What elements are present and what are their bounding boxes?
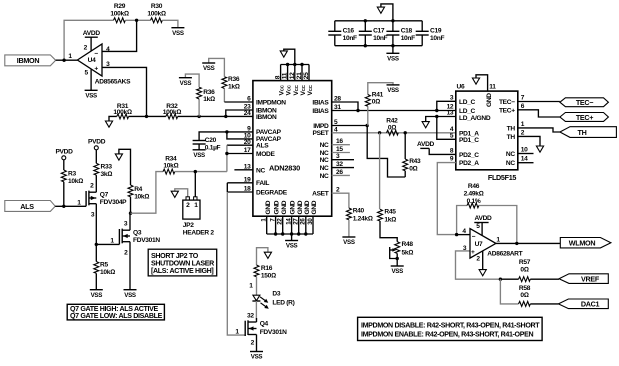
ground arrow above caps (377, 4, 393, 21)
svg-text:0.1µF: 0.1µF (205, 145, 221, 152)
capacitor C19 (416, 21, 445, 46)
svg-text:GND: GND (290, 200, 297, 214)
node R36-1 junction (197, 115, 200, 118)
wire pin23 elbow (226, 110, 253, 116)
svg-text:10nF: 10nF (343, 35, 357, 42)
capacitor C16 (328, 21, 357, 46)
svg-text:C20: C20 (205, 137, 217, 144)
power PVDD at R33 (88, 139, 106, 164)
transistor Q3 FDV301N (110, 213, 160, 290)
wire ALS/MODE vertical to R34 (226, 145, 228, 171)
connector flag TEC+ (560, 113, 609, 122)
svg-text:NC: NC (320, 165, 329, 172)
resistor R29 (110, 3, 128, 23)
node R46 left junction (455, 233, 458, 236)
svg-text:R16: R16 (261, 265, 273, 272)
svg-text:C16: C16 (343, 27, 355, 34)
wire pin11 to ground arrow (476, 75, 488, 91)
node pin3 junction (145, 115, 148, 118)
node pin23 junction (224, 115, 227, 118)
svg-text:1kΩ: 1kΩ (384, 217, 396, 224)
svg-text:0Ω: 0Ω (409, 165, 417, 172)
svg-text:AVDD: AVDD (475, 215, 493, 222)
svg-text:1kΩ: 1kΩ (228, 83, 240, 90)
svg-text:C18: C18 (401, 27, 413, 34)
svg-text:FDV301N: FDV301N (260, 329, 287, 336)
svg-text:Q7: Q7 (100, 192, 109, 199)
svg-text:VREF: VREF (581, 274, 600, 283)
svg-text:R29: R29 (114, 3, 126, 10)
power PVDD at R3 (55, 149, 73, 170)
svg-text:R42: R42 (386, 118, 398, 125)
note box SHORT JP2 (148, 249, 217, 276)
svg-text:NC: NC (256, 167, 265, 174)
svg-text:VCC: VCC (293, 84, 300, 95)
ground arrow at pin13 (422, 122, 429, 128)
wire R32 to IC pin24 (178, 115, 253, 117)
svg-text:100kΩ: 100kΩ (147, 11, 165, 18)
wire R30 to VSS (162, 20, 178, 27)
resistor R46 feedback (457, 183, 517, 243)
ground VSS below Q3 (124, 290, 137, 299)
ground arrow above IC (280, 51, 287, 57)
ground VSS right of R30 (171, 28, 184, 37)
wire VCC bar to arrow (284, 49, 295, 64)
wire JP2 pin2 to ground arrow (175, 189, 188, 197)
svg-text:C19: C19 (430, 27, 442, 34)
wire pin13 to PD1_C pin5 (437, 117, 456, 140)
svg-text:HEADER 2: HEADER 2 (183, 230, 215, 237)
wire junction down to pin4 (102, 20, 137, 51)
node Q7 drain junction (95, 243, 98, 246)
svg-text:12: 12 (289, 72, 296, 79)
svg-text:WLMON: WLMON (569, 238, 596, 247)
wire PSET line gray (332, 132, 456, 134)
svg-text:ALS: ALS (256, 143, 269, 150)
svg-text:R5: R5 (100, 262, 108, 269)
IC top VCC pins (281, 65, 309, 81)
wire IMPD staircase to R43 (367, 126, 405, 178)
IC right pin labels (312, 99, 329, 197)
svg-text:22: 22 (277, 218, 284, 225)
svg-text:30: 30 (307, 218, 314, 225)
ground arrow left of R31 (105, 116, 116, 127)
ground arrow left of JP2 (171, 191, 178, 197)
node R42 right junction (404, 131, 407, 134)
IC U6 body (456, 83, 518, 182)
svg-text:FLD5F15: FLD5F15 (488, 173, 517, 182)
svg-text:R57: R57 (519, 259, 531, 266)
resistor R32 (163, 103, 181, 119)
svg-text:0Ω: 0Ω (372, 99, 380, 106)
svg-text:PAVCAP: PAVCAP (256, 129, 282, 136)
node IBMON junction (62, 59, 65, 62)
wire net to Q4 gate gray (227, 192, 245, 335)
node R46 right junction (515, 242, 518, 245)
svg-text:AVDD: AVDD (417, 141, 435, 148)
node pin28/31 junction (356, 109, 359, 112)
svg-text:0Ω: 0Ω (520, 292, 528, 299)
power AVDD at U6 pin8 (417, 141, 456, 154)
ground VSS below Q4 (250, 352, 263, 361)
ground arrow at pin2 (536, 146, 543, 152)
svg-text:R46: R46 (468, 183, 480, 190)
potentiometer R48 (390, 241, 414, 266)
diode D3 LED (249, 283, 294, 320)
wire DEGRADE pin18 (227, 191, 253, 193)
connector flag TEC- (560, 98, 609, 107)
svg-text:R33: R33 (101, 164, 113, 171)
wire IBIAS line (332, 110, 437, 112)
resistor R3 (61, 170, 83, 206)
svg-text:R4: R4 (134, 186, 142, 193)
svg-text:NC: NC (506, 151, 515, 158)
svg-text:ADN2830: ADN2830 (269, 164, 300, 173)
capacitor C17 (359, 21, 388, 46)
ground VSS below IC (285, 241, 298, 250)
ground arrow above R16 (257, 248, 272, 265)
wire R34 to ALS/MODE vertical (175, 171, 227, 173)
svg-text:ALS: ALS (20, 202, 34, 211)
svg-text:100kΩ: 100kΩ (110, 11, 128, 18)
connector flag VREF (559, 274, 608, 284)
svg-text:TEC+: TEC+ (499, 107, 515, 114)
connector flag ALS (5, 201, 55, 212)
svg-text:MODE: MODE (256, 151, 275, 158)
ground VSS below C20 (193, 150, 206, 159)
resistor R31 (113, 103, 131, 119)
resistor R40 (346, 207, 372, 237)
node R48 wiper junction (396, 257, 399, 260)
wire feedback loop gray top (64, 20, 113, 60)
svg-text:R3: R3 (68, 171, 76, 178)
op-amp U7 (462, 223, 522, 263)
svg-text:NC: NC (506, 160, 515, 167)
svg-text:R36: R36 (203, 89, 215, 96)
node VREF junction (499, 278, 502, 281)
wire R31 to R32 (129, 115, 166, 117)
wire LD_C pin12 (437, 110, 456, 112)
ground VSS below R48 (391, 266, 404, 275)
svg-text:R36: R36 (228, 76, 240, 83)
svg-text:GND: GND (297, 200, 304, 214)
wire cap bank rails (335, 20, 422, 22)
svg-text:14: 14 (521, 156, 528, 163)
svg-text:U6: U6 (457, 83, 465, 90)
connector flag DAC1 (558, 299, 608, 309)
svg-text:GND: GND (311, 200, 318, 214)
wire U7 pin2 to ground arrow (479, 251, 486, 276)
resistor R30 (147, 3, 165, 23)
svg-text:10kΩ: 10kΩ (134, 193, 149, 200)
svg-text:3kΩ: 3kΩ (101, 171, 113, 178)
node junction R29/R30 (135, 19, 138, 22)
IC U5 ADN2830 body (253, 81, 332, 217)
IC right pin numbers (334, 96, 343, 194)
ground VSS above R36 left (179, 78, 192, 87)
svg-text:27: 27 (293, 218, 300, 225)
wire TEC- pin7 (518, 101, 560, 103)
svg-text:10kΩ: 10kΩ (68, 178, 83, 185)
svg-text:VCC: VCC (286, 84, 293, 95)
svg-text:GND: GND (281, 200, 288, 214)
svg-text:+: + (94, 66, 98, 73)
svg-text:+: + (471, 249, 475, 256)
ground VSS below R5 (90, 290, 103, 299)
svg-text:PD1_C: PD1_C (459, 137, 479, 144)
svg-text:0Ω: 0Ω (388, 125, 396, 132)
U6 right pin numbers (521, 95, 528, 163)
resistor R33 (94, 163, 113, 181)
svg-text:AVDD: AVDD (83, 30, 101, 37)
op-amp U4 (68, 44, 131, 85)
U6 left pin numbers (447, 94, 454, 162)
wire ALS pin20 (227, 144, 253, 146)
wire JP2 pin1 (194, 172, 196, 197)
svg-text:IBIAS: IBIAS (312, 108, 329, 115)
capacitor C20 (193, 137, 221, 152)
svg-text:IMPDMON DISABLE: R42-SHORT, R4: IMPDMON DISABLE: R42-SHORT, R43-OPEN, R4… (361, 322, 540, 330)
wire VREF to R58 (500, 279, 518, 304)
svg-text:[ALS: ACTIVE HIGH]: [ALS: ACTIVE HIGH] (151, 267, 213, 275)
connector JP2 HEADER 2 (183, 197, 215, 237)
svg-text:GND: GND (265, 200, 272, 214)
node pin13 junction (435, 115, 438, 118)
svg-text:26: 26 (300, 218, 307, 225)
svg-text:VCC: VCC (307, 84, 314, 95)
svg-text:TH: TH (507, 125, 516, 132)
svg-text:VCC: VCC (279, 84, 286, 95)
svg-text:PVDD: PVDD (55, 149, 73, 156)
svg-text:C17: C17 (373, 27, 385, 34)
svg-text:IMPDMON ENABLE: R42-OPEN, R43-: IMPDMON ENABLE: R42-OPEN, R43-SHORT, R41… (361, 330, 533, 338)
wire IMPD pin5 (332, 125, 368, 127)
svg-text:PD2_C: PD2_C (459, 152, 479, 159)
resistor R36 (left) (185, 74, 215, 116)
svg-text:10nF: 10nF (430, 35, 444, 42)
wire IBMON to opamp (56, 59, 78, 61)
svg-text:2.49kΩ: 2.49kΩ (464, 190, 484, 197)
wire TH pin1 (518, 128, 560, 132)
svg-text:AD8628ART: AD8628ART (487, 251, 522, 258)
IC VCC labels rotated (279, 84, 314, 95)
svg-text:R30: R30 (151, 3, 163, 10)
node VCC bar junctions (286, 63, 289, 66)
wire pin3 to R31R32 line (102, 67, 147, 116)
svg-text:R45: R45 (384, 208, 396, 215)
svg-text:0.1%: 0.1% (467, 198, 481, 205)
wire ASET to R40 (332, 193, 349, 208)
svg-text:11: 11 (282, 72, 289, 79)
svg-text:D3: D3 (272, 291, 280, 298)
wire IBIAS pin28 elbow (332, 102, 358, 111)
wire LD_A/GND pin13 to arrow (426, 117, 456, 122)
resistor R5 (94, 244, 115, 289)
svg-text:JP2: JP2 (183, 222, 194, 229)
IC NC stubs right (332, 144, 350, 146)
wire PD2_A pin9 down to U7 (437, 163, 456, 235)
svg-text:NC: NC (320, 150, 329, 157)
node R4 bottom junction (129, 212, 132, 215)
node cap rail junctions (364, 19, 367, 22)
power AVDD at U7 pin5 (474, 215, 492, 236)
svg-text:TEC+: TEC+ (576, 113, 593, 122)
stub NC pin10 (518, 153, 534, 155)
ground VSS above R41 (387, 85, 400, 94)
node IMPD junction (366, 124, 369, 127)
svg-text:PSET: PSET (312, 130, 328, 137)
resistor R36 (right) (209, 58, 240, 102)
wire MODE pin17 (227, 153, 253, 155)
resistor R34 (163, 156, 178, 175)
svg-text:LED (R): LED (R) (272, 299, 294, 306)
svg-text:DAC1: DAC1 (581, 300, 600, 309)
capacitor C18 (386, 21, 415, 46)
wire U7 output (496, 242, 560, 244)
resistor R58 (519, 285, 559, 307)
transistor Q4 FDV301N (235, 312, 287, 351)
connector flag WLMON (560, 238, 611, 248)
svg-text:TEC−: TEC− (576, 98, 593, 107)
svg-text:IBIAS: IBIAS (312, 99, 329, 106)
svg-text:100kΩ: 100kΩ (113, 109, 131, 116)
node ALS junction (62, 205, 65, 208)
svg-text:TH: TH (507, 134, 516, 141)
node IBIAS to LD_C junction (435, 109, 438, 112)
resistor R41 (365, 83, 393, 126)
svg-text:LD_A/GND: LD_A/GND (459, 115, 491, 122)
svg-text:10nF: 10nF (373, 35, 387, 42)
svg-text:GND: GND (486, 93, 493, 107)
svg-text:5kΩ: 5kΩ (402, 249, 414, 256)
svg-text:PD2_A: PD2_A (459, 160, 479, 167)
wire pin6 line (224, 101, 253, 103)
svg-text:IBMON: IBMON (17, 56, 40, 65)
resistor R45 (378, 133, 398, 242)
resistor R4 (128, 185, 149, 213)
wire LD_C pin3 elbow (437, 101, 456, 110)
node R42 left junction (378, 131, 381, 134)
svg-text:FAIL: FAIL (256, 180, 269, 187)
IC bottom GND pins (267, 216, 313, 240)
node MODE junction (225, 152, 228, 155)
svg-text:R48: R48 (402, 241, 414, 248)
svg-text:R40: R40 (353, 207, 365, 214)
svg-text:1.24kΩ: 1.24kΩ (353, 216, 373, 223)
wire U7 +input loop (456, 251, 501, 279)
transistor Q7 FDV304P (77, 181, 127, 244)
svg-text:R43: R43 (409, 158, 421, 165)
ground VSS above R36 right (202, 63, 215, 72)
svg-text:DEGRADE: DEGRADE (256, 189, 288, 196)
resistor R43 (403, 133, 421, 177)
svg-text:−: − (472, 233, 476, 240)
ground arrow left of R4 (115, 149, 130, 185)
svg-text:100kΩ: 100kΩ (163, 109, 181, 116)
svg-text:TEC−: TEC− (499, 99, 515, 106)
wire FAIL/DEGRADE vertical (226, 183, 228, 192)
svg-text:10kΩ: 10kΩ (100, 269, 115, 276)
svg-text:NC: NC (320, 142, 329, 149)
U6 right pin labels (499, 99, 515, 167)
svg-text:LD_C: LD_C (459, 99, 476, 106)
node JP2 junction (194, 170, 197, 173)
IC left pin labels (256, 99, 288, 196)
note box IMPDMON (358, 317, 542, 340)
svg-text:32: 32 (247, 312, 254, 319)
wire pin9/pin10 elbow to C20 (227, 132, 253, 139)
wire Q7 drain to Q3 gate (96, 243, 119, 245)
svg-text:Q3: Q3 (133, 230, 142, 237)
svg-text:25: 25 (303, 72, 310, 79)
svg-text:R58: R58 (519, 285, 531, 292)
power AVDD at U4 pin2 (83, 30, 101, 51)
wire FAIL pin19 (227, 182, 253, 184)
svg-text:VCC: VCC (300, 84, 307, 95)
svg-text:10: 10 (521, 147, 528, 154)
wire TH pin2 to ground arrow (518, 136, 540, 146)
IC bottom pin numbers rotated (261, 218, 314, 225)
resistor R16 (254, 265, 276, 295)
svg-text:NC: NC (320, 173, 329, 180)
wire TEC+ pin6 (518, 110, 560, 117)
svg-text:GND: GND (274, 200, 281, 214)
svg-text:TH: TH (578, 128, 587, 137)
ground VSS below caps (386, 46, 399, 63)
ground VSS at U4 pin5 (85, 70, 98, 100)
svg-text:150Ω: 150Ω (261, 272, 276, 279)
svg-text:PVDD: PVDD (88, 139, 106, 146)
svg-text:R34: R34 (165, 156, 177, 163)
resistor R57 (500, 259, 559, 282)
svg-text:21: 21 (296, 72, 303, 79)
stub NC pin14 (518, 162, 534, 164)
svg-text:ASET: ASET (312, 191, 329, 198)
connector flag TH (560, 127, 617, 138)
IC left pin numbers (244, 96, 251, 193)
wire R4 junction to R34 net (131, 172, 164, 214)
connector flag IBMON (5, 55, 56, 66)
ground arrow above U6 (472, 78, 479, 84)
svg-text:U7: U7 (475, 241, 483, 248)
svg-text:NC: NC (320, 157, 329, 164)
wire R29 to junction (125, 19, 150, 21)
svg-text:IMPD: IMPD (313, 123, 329, 130)
svg-text:R41: R41 (372, 91, 384, 98)
IC top pin numbers rotated (274, 72, 310, 79)
svg-text:IMPDMON: IMPDMON (256, 99, 286, 106)
svg-text:Q7 GATE LOW: ALS DISABLE: Q7 GATE LOW: ALS DISABLE (70, 312, 163, 320)
svg-text:1kΩ: 1kΩ (203, 96, 215, 103)
svg-text:FDV301N: FDV301N (133, 237, 160, 244)
note box Q7 GATE (67, 304, 164, 320)
ground VSS below R40 (342, 237, 355, 246)
svg-text:AD8565AKS: AD8565AKS (95, 78, 131, 85)
svg-text:Q4: Q4 (260, 321, 269, 328)
pin13 NC stub (234, 169, 253, 171)
svg-text:FDV304P: FDV304P (100, 199, 127, 206)
svg-text:24: 24 (244, 110, 251, 117)
svg-text:GND: GND (304, 200, 311, 214)
node GND bar junctions (274, 232, 277, 235)
wire U7 -input (457, 234, 470, 236)
svg-text:10nF: 10nF (401, 35, 415, 42)
IC GND labels rotated (265, 200, 318, 214)
resistor R42 (386, 118, 398, 136)
U6 left pin labels (459, 99, 491, 167)
svg-text:U4: U4 (88, 57, 96, 64)
svg-text:10kΩ: 10kΩ (163, 163, 178, 170)
